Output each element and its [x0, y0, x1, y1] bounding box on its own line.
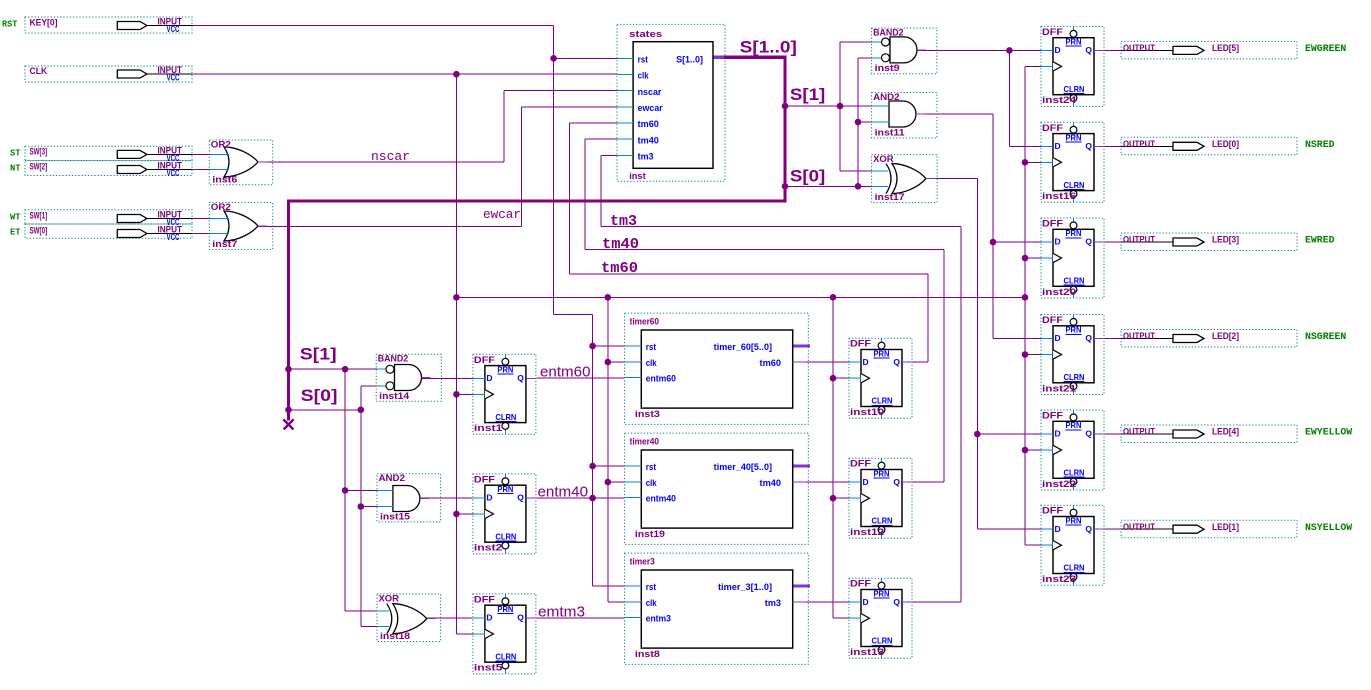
- svg-text:inst2: inst2: [474, 543, 503, 554]
- svg-text:DFF: DFF: [474, 594, 495, 605]
- svg-text:inst19: inst19: [635, 529, 665, 540]
- svg-text:inst1: inst1: [474, 423, 503, 434]
- svg-text:OUTPUT: OUTPUT: [1123, 331, 1155, 342]
- svg-text:OUTPUT: OUTPUT: [1123, 427, 1155, 438]
- svg-text:CLRN: CLRN: [1064, 84, 1085, 94]
- svg-text:CLRN: CLRN: [1064, 563, 1085, 573]
- svg-text:tm3: tm3: [765, 598, 781, 608]
- svg-text:D: D: [486, 373, 492, 383]
- svg-text:OR2: OR2: [211, 140, 231, 151]
- svg-text:tm60: tm60: [601, 260, 638, 277]
- svg-text:NSGREEN: NSGREEN: [1305, 332, 1346, 343]
- svg-text:NT: NT: [10, 164, 21, 174]
- svg-text:DFF: DFF: [1042, 123, 1063, 134]
- svg-text:timer_60[5..0]: timer_60[5..0]: [714, 342, 772, 352]
- svg-text:D: D: [1055, 429, 1061, 439]
- svg-text:inst23: inst23: [1042, 574, 1076, 585]
- svg-text:Q: Q: [1085, 429, 1092, 439]
- svg-text:nscar: nscar: [371, 149, 410, 164]
- svg-text:rst: rst: [646, 342, 656, 352]
- svg-text:DFF: DFF: [474, 474, 495, 485]
- svg-text:BAND2: BAND2: [378, 354, 409, 365]
- svg-text:VCC: VCC: [167, 168, 180, 179]
- svg-text:rst: rst: [646, 462, 656, 472]
- svg-text:CLRN: CLRN: [1064, 372, 1085, 382]
- svg-text:states: states: [629, 29, 662, 40]
- svg-text:Q: Q: [517, 613, 524, 623]
- svg-text:S[1]: S[1]: [790, 85, 825, 104]
- svg-text:Q: Q: [893, 357, 900, 367]
- svg-text:timer_3[1..0]: timer_3[1..0]: [718, 582, 772, 592]
- svg-text:OR2: OR2: [211, 202, 231, 213]
- svg-text:inst22: inst22: [1042, 479, 1076, 490]
- svg-text:timer3: timer3: [630, 556, 655, 567]
- svg-text:DFF: DFF: [474, 355, 495, 366]
- svg-text:CLRN: CLRN: [495, 531, 516, 541]
- svg-text:timer60: timer60: [630, 316, 659, 327]
- svg-text:inst15: inst15: [380, 511, 411, 522]
- svg-text:inst14: inst14: [379, 391, 410, 402]
- svg-text:EWGREEN: EWGREEN: [1305, 44, 1346, 55]
- svg-text:ewcar: ewcar: [638, 103, 664, 113]
- svg-text:S[1..0]: S[1..0]: [676, 55, 703, 65]
- svg-text:S[0]: S[0]: [301, 386, 338, 405]
- svg-text:OUTPUT: OUTPUT: [1123, 235, 1155, 246]
- svg-text:DFF: DFF: [1042, 506, 1063, 517]
- svg-text:VCC: VCC: [167, 73, 180, 84]
- svg-text:Q: Q: [1085, 237, 1092, 247]
- svg-text:DFF: DFF: [1042, 411, 1063, 422]
- svg-text:SW[3]: SW[3]: [30, 147, 48, 158]
- svg-text:PRN: PRN: [1066, 325, 1082, 335]
- svg-text:entm40: entm40: [646, 494, 676, 504]
- svg-text:PRN: PRN: [1066, 228, 1082, 238]
- svg-text:clk: clk: [646, 478, 658, 488]
- svg-text:D: D: [1055, 237, 1061, 247]
- svg-text:D: D: [863, 477, 869, 487]
- svg-text:DFF: DFF: [1042, 315, 1063, 326]
- svg-text:clk: clk: [638, 71, 650, 81]
- svg-text:inst20: inst20: [1042, 287, 1076, 298]
- svg-text:PRN: PRN: [497, 365, 513, 375]
- svg-text:inst13: inst13: [850, 647, 884, 658]
- svg-text:LED[3]: LED[3]: [1212, 235, 1239, 246]
- svg-text:LED[2]: LED[2]: [1212, 331, 1239, 342]
- svg-text:PRN: PRN: [874, 588, 890, 598]
- svg-text:ET: ET: [10, 228, 21, 238]
- svg-text:inst5: inst5: [474, 663, 503, 674]
- svg-text:inst12: inst12: [850, 527, 884, 538]
- svg-text:inst3: inst3: [635, 409, 660, 420]
- svg-text:OUTPUT: OUTPUT: [1123, 43, 1155, 54]
- svg-text:AND2: AND2: [873, 92, 900, 103]
- svg-text:D: D: [1055, 45, 1061, 55]
- svg-text:SW[2]: SW[2]: [30, 162, 48, 173]
- svg-text:Q: Q: [893, 597, 900, 607]
- svg-text:inst24: inst24: [1042, 95, 1077, 106]
- svg-text:KEY[0]: KEY[0]: [30, 18, 58, 29]
- svg-text:AND2: AND2: [379, 473, 406, 484]
- svg-text:CLK: CLK: [30, 66, 48, 77]
- svg-text:inst6: inst6: [212, 174, 237, 185]
- svg-text:PRN: PRN: [874, 348, 890, 358]
- svg-text:DFF: DFF: [1042, 219, 1063, 230]
- svg-text:clk: clk: [646, 598, 658, 608]
- svg-text:XOR: XOR: [873, 154, 894, 165]
- svg-text:LED[4]: LED[4]: [1212, 427, 1239, 438]
- svg-text:entm60: entm60: [540, 364, 591, 381]
- svg-text:Q: Q: [1085, 141, 1092, 151]
- svg-text:SW[0]: SW[0]: [30, 226, 48, 237]
- svg-text:EWRED: EWRED: [1305, 236, 1335, 247]
- svg-text:VCC: VCC: [167, 24, 180, 35]
- svg-text:CLRN: CLRN: [1064, 276, 1085, 286]
- svg-text:S[1]: S[1]: [300, 345, 337, 364]
- svg-text:Q: Q: [1085, 333, 1092, 343]
- svg-text:tm40: tm40: [638, 135, 659, 145]
- svg-text:CLRN: CLRN: [872, 516, 893, 526]
- svg-text:clk: clk: [646, 358, 658, 368]
- svg-text:tm3: tm3: [610, 213, 637, 230]
- svg-text:D: D: [1055, 141, 1061, 151]
- svg-text:D: D: [486, 613, 492, 623]
- svg-text:ST: ST: [10, 148, 21, 158]
- svg-text:CLRN: CLRN: [495, 412, 516, 422]
- svg-text:LED[5]: LED[5]: [1212, 43, 1239, 54]
- svg-text:Q: Q: [517, 493, 524, 503]
- svg-text:inst11: inst11: [875, 128, 906, 139]
- svg-text:OUTPUT: OUTPUT: [1123, 522, 1155, 533]
- svg-text:PRN: PRN: [1066, 420, 1082, 430]
- svg-text:D: D: [486, 493, 492, 503]
- svg-text:PRN: PRN: [1066, 515, 1082, 525]
- svg-text:tm60: tm60: [638, 119, 659, 129]
- svg-text:entm3: entm3: [646, 614, 671, 624]
- svg-text:DFF: DFF: [1042, 27, 1063, 38]
- svg-text:rst: rst: [638, 55, 648, 65]
- svg-text:CLRN: CLRN: [495, 651, 516, 661]
- svg-text:inst17: inst17: [875, 192, 905, 203]
- svg-text:timer_40[5..0]: timer_40[5..0]: [714, 462, 772, 472]
- svg-text:CLRN: CLRN: [1064, 468, 1085, 478]
- svg-text:inst: inst: [629, 171, 646, 182]
- svg-text:OUTPUT: OUTPUT: [1123, 139, 1155, 150]
- svg-text:Q: Q: [517, 373, 524, 383]
- svg-text:SW[1]: SW[1]: [30, 211, 48, 222]
- svg-text:S[1..0]: S[1..0]: [740, 37, 797, 56]
- svg-text:entm60: entm60: [646, 374, 676, 384]
- svg-text:PRN: PRN: [497, 604, 513, 614]
- svg-text:inst8: inst8: [635, 649, 660, 660]
- svg-text:tm60: tm60: [760, 358, 782, 368]
- svg-text:ewcar: ewcar: [483, 207, 521, 222]
- svg-text:PRN: PRN: [1066, 37, 1082, 47]
- svg-text:entm40: entm40: [538, 484, 589, 501]
- svg-text:PRN: PRN: [1066, 133, 1082, 143]
- svg-text:DFF: DFF: [850, 579, 871, 590]
- svg-text:tm40: tm40: [760, 478, 782, 488]
- svg-text:NSRED: NSRED: [1305, 140, 1335, 151]
- svg-text:inst16: inst16: [1042, 191, 1076, 202]
- svg-text:D: D: [863, 357, 869, 367]
- svg-text:BAND2: BAND2: [873, 28, 904, 39]
- svg-text:LED[1]: LED[1]: [1212, 522, 1239, 533]
- svg-text:EWYELLOW: EWYELLOW: [1305, 428, 1352, 439]
- svg-text:S[0]: S[0]: [790, 167, 825, 186]
- svg-text:LED[0]: LED[0]: [1212, 139, 1239, 150]
- svg-text:VCC: VCC: [167, 232, 180, 243]
- svg-text:rst: rst: [646, 582, 656, 592]
- svg-text:PRN: PRN: [874, 468, 890, 478]
- svg-text:Q: Q: [893, 477, 900, 487]
- svg-text:Q: Q: [1085, 524, 1092, 534]
- svg-text:tm3: tm3: [638, 152, 654, 162]
- svg-text:Q: Q: [1085, 45, 1092, 55]
- svg-text:XOR: XOR: [379, 593, 400, 604]
- svg-text:inst18: inst18: [380, 631, 410, 642]
- svg-text:tm40: tm40: [602, 236, 639, 253]
- svg-text:WT: WT: [10, 213, 21, 223]
- svg-text:D: D: [1055, 333, 1061, 343]
- svg-text:DFF: DFF: [850, 339, 871, 350]
- svg-text:timer40: timer40: [630, 436, 659, 447]
- svg-text:CLRN: CLRN: [1064, 180, 1085, 190]
- svg-text:D: D: [1055, 524, 1061, 534]
- svg-text:NSYELLOW: NSYELLOW: [1305, 523, 1352, 534]
- svg-text:DFF: DFF: [850, 459, 871, 470]
- svg-text:inst10: inst10: [850, 407, 884, 418]
- svg-text:PRN: PRN: [497, 484, 513, 494]
- svg-text:CLRN: CLRN: [872, 636, 893, 646]
- svg-text:D: D: [863, 597, 869, 607]
- svg-text:CLRN: CLRN: [872, 396, 893, 406]
- svg-text:nscar: nscar: [638, 87, 662, 97]
- svg-text:inst7: inst7: [212, 239, 237, 250]
- svg-text:inst9: inst9: [875, 63, 900, 74]
- svg-text:emtm3: emtm3: [538, 604, 585, 621]
- svg-text:inst21: inst21: [1042, 383, 1077, 394]
- svg-text:RST: RST: [2, 20, 18, 30]
